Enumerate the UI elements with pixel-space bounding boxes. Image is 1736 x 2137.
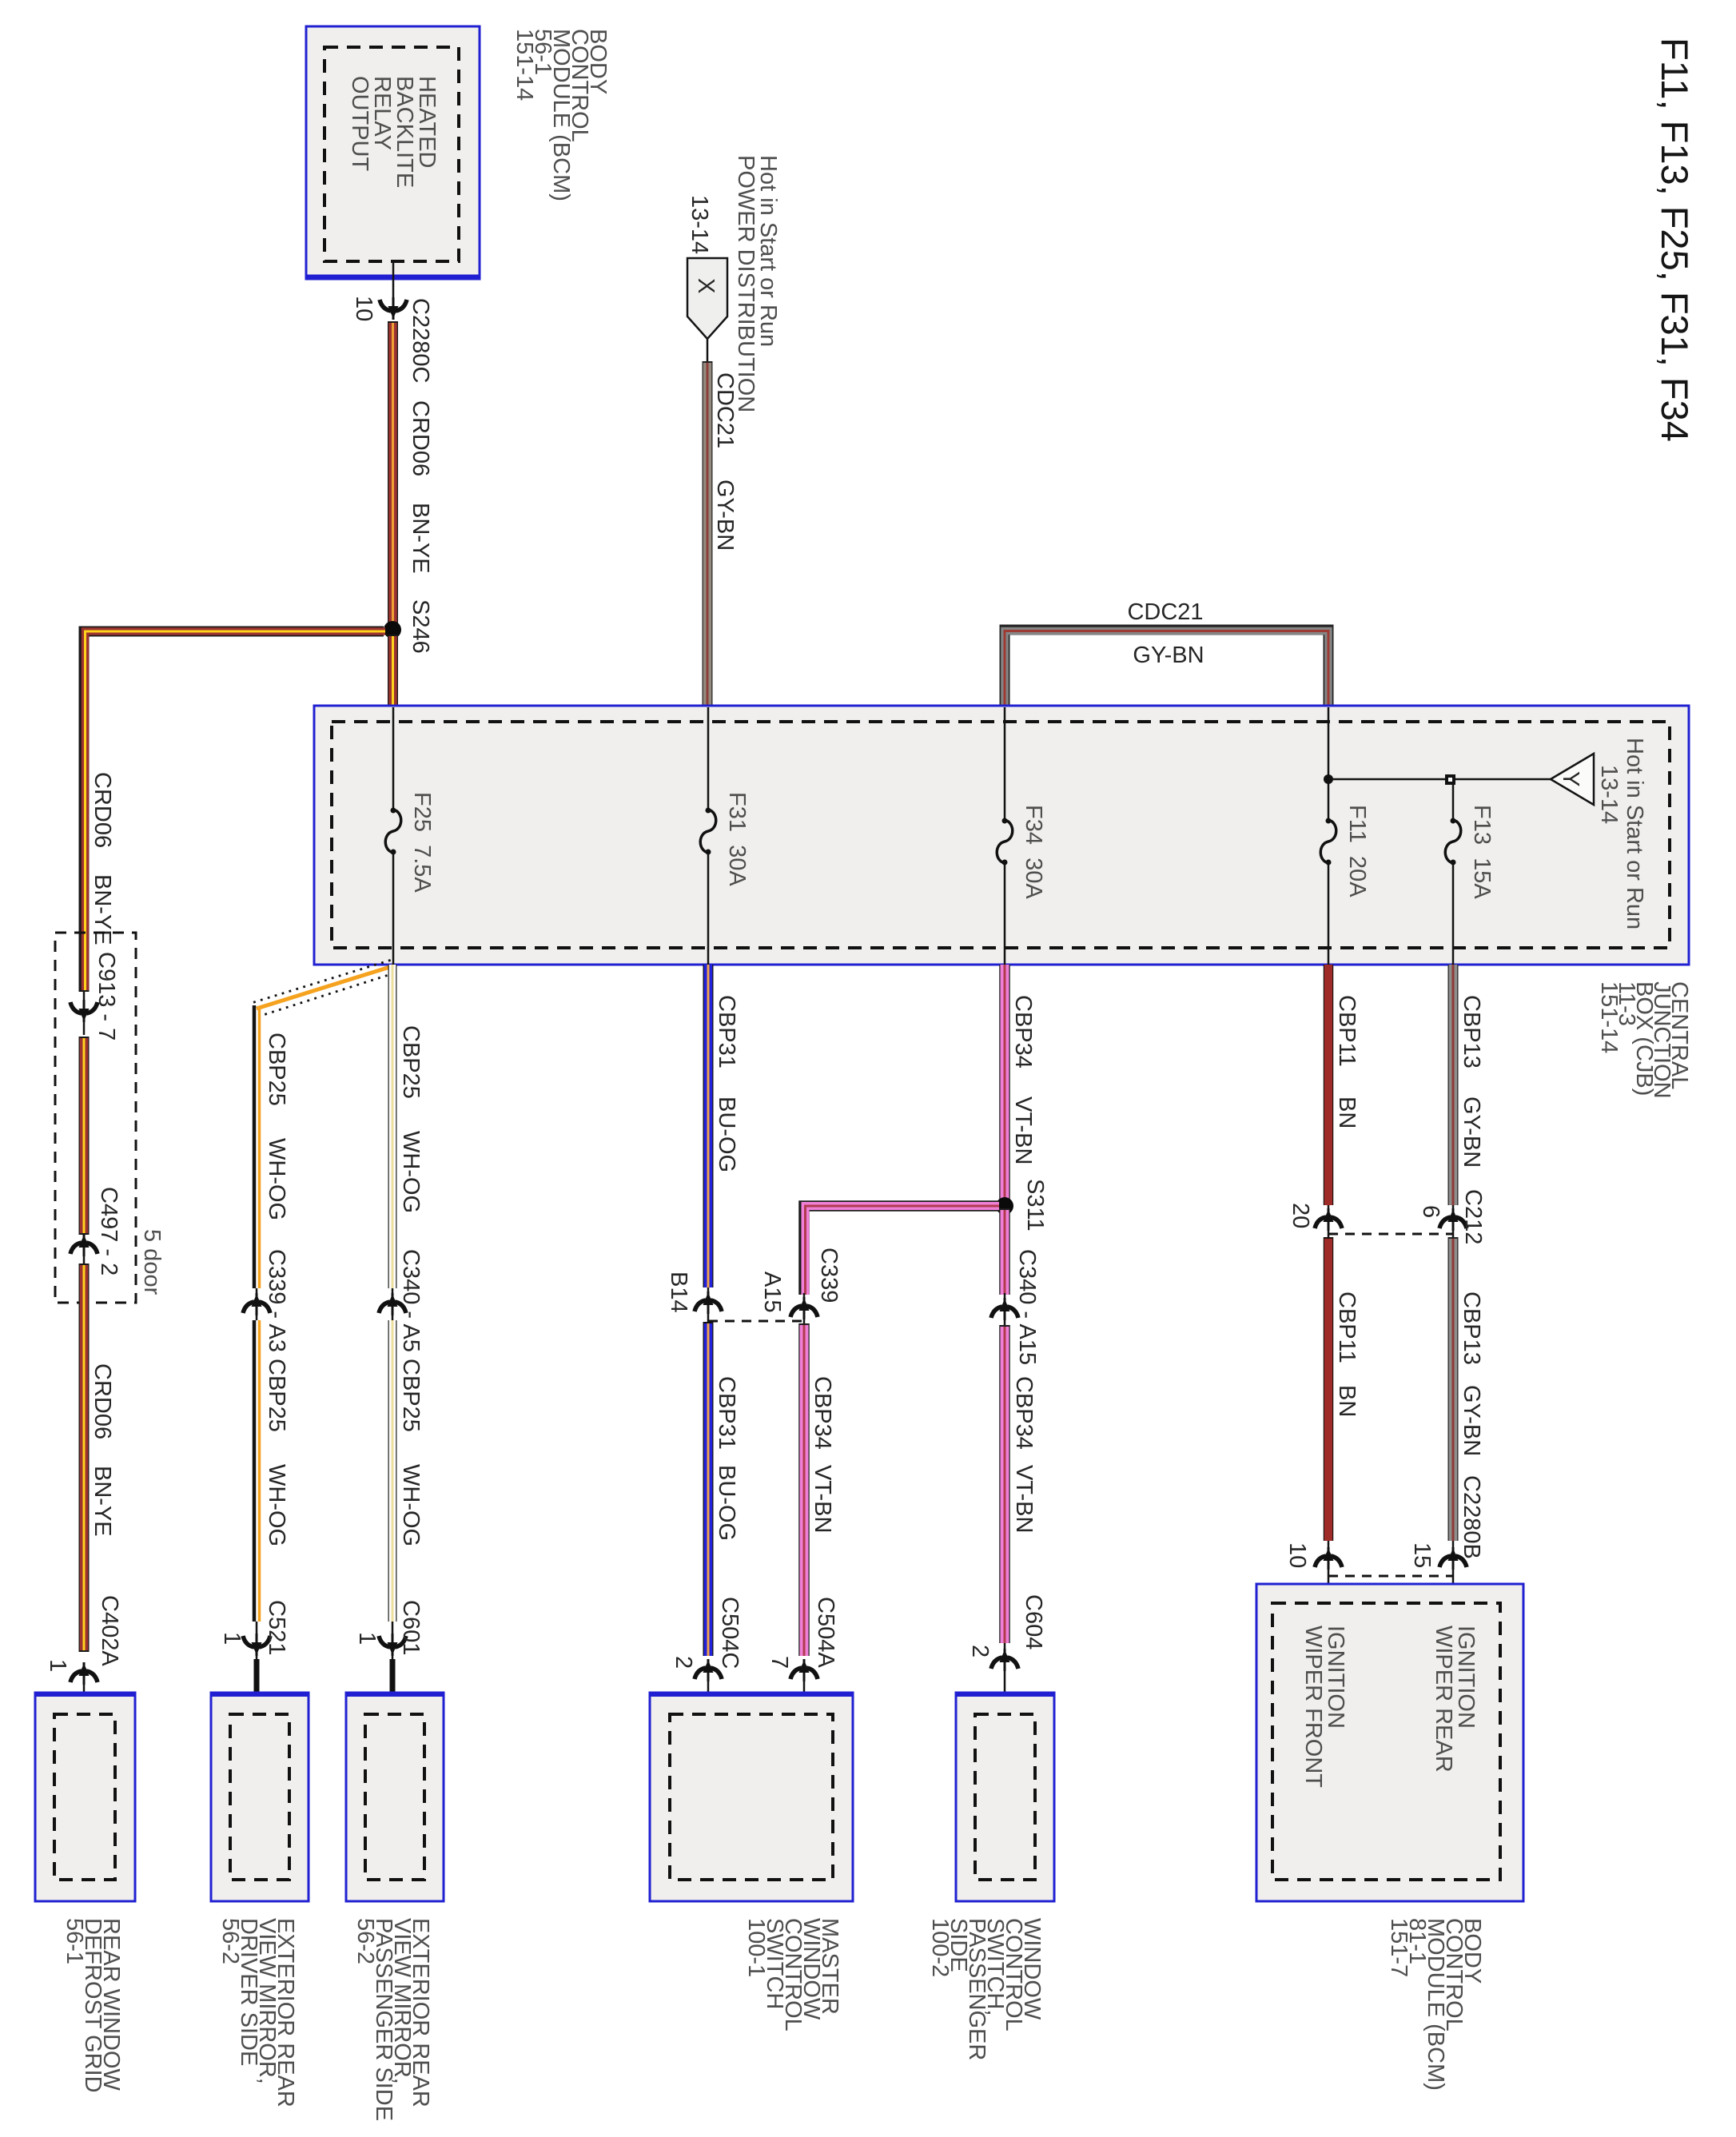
svg-text:BU-OG: BU-OG (714, 1465, 739, 1541)
wire CRD06 BN-YE inside 5 door loop (79, 1037, 90, 1235)
wire CBP11 BN (F11 to pin 20) (1324, 965, 1334, 1205)
title F11, F13, F25, F31, F34 (1654, 38, 1696, 442)
label REAR WINDOW DEFROST GRID 56-1 (62, 1918, 124, 2093)
fuse F31 (700, 808, 716, 855)
svg-text:GY-BN: GY-BN (1459, 1096, 1484, 1168)
wire label CRD06 (408, 400, 433, 476)
svg-text:GY-BN: GY-BN (1133, 643, 1204, 668)
fuse label F31 30A (724, 792, 750, 886)
module box WINDOW CONTROL SWITCH PASSENGER SIDE (956, 1693, 1054, 1901)
wire S246 to CJB F25 (388, 635, 398, 706)
connector label C340 - A5 (398, 1249, 424, 1352)
wire label WH-OG (398, 1464, 424, 1546)
wire CBP31 BU-OG (F31 to B14) (703, 965, 714, 1287)
fuse label F34 30A (1021, 805, 1046, 899)
svg-text:B14: B14 (666, 1271, 691, 1313)
dashed link pin20 to pin6 (1328, 1233, 1453, 1236)
pin label 1 (219, 1632, 245, 1645)
connector label C402A (97, 1595, 122, 1666)
svg-text:C497 - 2: C497 - 2 (96, 1187, 121, 1275)
label S246 (408, 599, 433, 654)
connector C212 pin 6 arrow (1439, 1205, 1467, 1237)
svg-text:BN-YE: BN-YE (90, 1466, 115, 1537)
module box: BODY CONTROL MODULE (BCM) heated backlite relay output (306, 26, 480, 279)
svg-text:GY-BN: GY-BN (1459, 1385, 1484, 1456)
pin label 1 (354, 1632, 380, 1645)
svg-text:BN-YE: BN-YE (90, 874, 115, 945)
internal feed line F34 (1004, 707, 1006, 965)
wire label CBP25 (264, 1033, 289, 1106)
connector label C339 - A3 (264, 1249, 289, 1352)
module box REAR WINDOW DEFROST GRID (35, 1693, 135, 1901)
wire label VT-BN (810, 1465, 835, 1533)
wire label CBP25 (398, 1025, 424, 1099)
dashed link B14 to A15 (708, 1320, 804, 1323)
label C913 - 7 (94, 952, 119, 1041)
svg-text:C2280B: C2280B (1459, 1475, 1484, 1559)
svg-text:CDC21: CDC21 (712, 372, 738, 448)
wire CBP13 GY-BN (C212 to BCM pin 15) (1448, 1237, 1459, 1541)
svg-text:WH-OG: WH-OG (264, 1138, 289, 1220)
label CENTRAL JUNCTION BOX (CJB) 11-3 151-14 (1596, 981, 1692, 1099)
svg-text:S311: S311 (1022, 1179, 1048, 1232)
svg-text:CBP11: CBP11 (1334, 1291, 1360, 1363)
svg-text:15: 15 (1409, 1542, 1435, 1568)
svg-text:C212: C212 (1460, 1189, 1486, 1244)
wire CBP34 VT-BN (S311 to C340-A15) (999, 1208, 1010, 1295)
label 13-14 (687, 195, 712, 254)
wire from BCM pin 10 (thin lead) (392, 261, 395, 299)
svg-text:CBP13: CBP13 (1459, 1291, 1484, 1365)
wire CBP11 BN (pin 20 to BCM pin 10) (1324, 1237, 1334, 1541)
internal bus wire from Y feed (1328, 778, 1551, 781)
internal label IGNITION WIPER FRONT (1300, 1626, 1348, 1788)
connector C339-A3 arrow (243, 1288, 270, 1320)
wire label CBP34 (810, 1376, 835, 1450)
svg-text:CBP34: CBP34 (810, 1376, 835, 1450)
connector C340-A5 arrow (379, 1288, 406, 1320)
connector label C212 (1460, 1189, 1486, 1244)
wire label CBP25 (264, 1359, 289, 1432)
svg-text:151-7: 151-7 (1386, 1918, 1411, 1977)
wire CBP25 WH-OG right lower (to C601) (388, 1320, 397, 1622)
svg-text:WIPER REAR: WIPER REAR (1431, 1626, 1456, 1773)
svg-text:F11 20A: F11 20A (1344, 805, 1370, 897)
svg-text:A15: A15 (759, 1271, 785, 1313)
svg-text:CRD06: CRD06 (90, 772, 115, 848)
wire CBP13 GY-BN (F13 to C212 pin 6) (1448, 965, 1459, 1205)
power feed symbol Y triangle (1551, 754, 1594, 805)
label BODY CONTROL MODULE (BCM) 81-1 151-7 (1386, 1918, 1485, 2091)
wire label CBP11 (1334, 995, 1360, 1067)
wire label CRD06 (90, 1363, 115, 1439)
svg-text:CBP34: CBP34 (1011, 1376, 1037, 1450)
svg-text:WH-OG: WH-OG (264, 1464, 289, 1546)
svg-text:6: 6 (1418, 1205, 1443, 1218)
wire label CBP13 (1459, 1291, 1484, 1365)
pin label 10 (1284, 1542, 1310, 1568)
label MASTER WINDOW CONTROL SWITCH 100-1 (743, 1918, 842, 2032)
label Hot in Start or Run 13-14 (inside CJB) (1596, 738, 1647, 929)
internal label IGNITION WIPER REAR (1431, 1626, 1479, 1773)
svg-text:GY-BN: GY-BN (712, 480, 738, 551)
connector A15 arrow (790, 1293, 818, 1323)
svg-text:C521: C521 (264, 1600, 289, 1655)
fuse label F13 15A (1469, 805, 1495, 899)
module box EXTERIOR REAR VIEW MIRROR PASSENGER SIDE (346, 1693, 444, 1901)
connector C340-A15 arrow (991, 1293, 1018, 1325)
svg-text:S246: S246 (408, 599, 433, 654)
svg-text:C339 - A3: C339 - A3 (264, 1249, 289, 1352)
label 5 door (139, 1229, 165, 1295)
svg-text:C504C: C504C (717, 1597, 743, 1669)
connector label C340 - A15 (1014, 1249, 1040, 1365)
connector C521 arrow (243, 1622, 270, 1659)
wire label BU-OG (714, 1096, 739, 1172)
wire CRD06 BN-YE branch from S246 to left and down (84, 631, 385, 992)
connector C913-7 arrow (70, 992, 98, 1035)
splice S311 (996, 1197, 1013, 1215)
svg-text:F13 15A: F13 15A (1469, 805, 1495, 899)
svg-text:WH-OG: WH-OG (398, 1131, 424, 1213)
fuse F25 (385, 808, 401, 855)
wire label CRD06 (90, 772, 115, 848)
svg-text:CBP34: CBP34 (1010, 995, 1036, 1068)
svg-text:2: 2 (671, 1656, 696, 1669)
module box MASTER WINDOW CONTROL SWITCH (650, 1693, 853, 1901)
pin label 6 (1418, 1205, 1443, 1218)
wire CBP25 WH-OG right (to C340-A5) (388, 965, 397, 1288)
svg-text:1: 1 (354, 1632, 380, 1645)
connector label C504A (813, 1597, 838, 1668)
central junction box CJB (314, 706, 1689, 965)
fuse F11 (1320, 818, 1336, 866)
svg-text:CDC21: CDC21 (1127, 599, 1203, 625)
wire label VT-BN (1010, 1096, 1036, 1164)
svg-text:VT-BN: VT-BN (810, 1465, 835, 1533)
svg-text:CRD06: CRD06 (408, 400, 433, 476)
wire label BN-YE (90, 874, 115, 945)
svg-text:Hot in Start or Run: Hot in Start or Run (1622, 738, 1647, 929)
wire CBP31 BU-OG (B14 to C504C) (703, 1322, 714, 1656)
fuse label F25 7.5A (409, 792, 435, 893)
wire label CDC21 (712, 372, 738, 448)
wire label GY-BN (712, 480, 738, 551)
wire label BN-YE (90, 1466, 115, 1537)
label EXTERIOR REAR VIEW MIRROR DRIVER SIDE 56-2 (217, 1918, 298, 2107)
connector C497-2 arrow (70, 1234, 98, 1267)
connector BCM pin 15 arrow (1439, 1541, 1467, 1603)
connector C2280C pin arrow (380, 297, 407, 320)
wire CDC21 GY-BN loop (F34 to F11 feed) (1005, 630, 1328, 706)
wire label VT-BN (1011, 1465, 1037, 1533)
svg-text:7: 7 (766, 1656, 792, 1669)
wire label GY-BN (horizontal) (1133, 643, 1204, 668)
wire label CBP11 (1334, 1291, 1360, 1363)
internal feed line F25 (392, 707, 395, 965)
wire label CBP31 (714, 1376, 739, 1450)
connector C504C arrow (695, 1659, 722, 1716)
connector C402A arrow (70, 1662, 98, 1716)
connector label C2280C (408, 298, 433, 383)
svg-text:13-14: 13-14 (1596, 765, 1622, 824)
svg-text:CBP31: CBP31 (714, 995, 739, 1068)
pin label 7 (766, 1656, 792, 1669)
wire label CBP31 (714, 995, 739, 1068)
connector C601 arrow (379, 1622, 406, 1659)
svg-text:C402A: C402A (97, 1595, 122, 1666)
svg-text:X: X (693, 278, 719, 293)
svg-text:CBP25: CBP25 (264, 1359, 289, 1432)
connector pin 20 arrow (1315, 1205, 1342, 1237)
svg-text:20: 20 (1288, 1203, 1313, 1228)
svg-text:151-14: 151-14 (512, 29, 537, 101)
svg-text:VT-BN: VT-BN (1010, 1096, 1036, 1164)
wire CRD06 BN-YE to C402A (79, 1263, 90, 1652)
svg-text:BN-YE: BN-YE (408, 503, 433, 574)
wire CBP25 WH-OG diagonal branch from F25 (253, 960, 395, 1015)
module box EXTERIOR REAR VIEW MIRROR DRIVER SIDE (211, 1693, 309, 1901)
svg-text:OUTPUT: OUTPUT (347, 76, 372, 172)
wire label GY-BN (1459, 1385, 1484, 1456)
wire CBP34 VT-BN (C340-A15 to C604) (999, 1325, 1010, 1643)
svg-text:CBP13: CBP13 (1459, 995, 1484, 1068)
wire label WH-OG (398, 1131, 424, 1213)
wire label CBP34 (1010, 995, 1036, 1068)
svg-text:C604: C604 (1021, 1594, 1046, 1650)
internal feed line F11 (1328, 707, 1330, 965)
wire label CDC21 (horizontal) (1127, 599, 1203, 625)
svg-text:56-2: 56-2 (217, 1918, 243, 1964)
dashed connector pass-through box C913/C497 (55, 933, 136, 1303)
svg-text:BU-OG: BU-OG (714, 1096, 739, 1172)
svg-text:CBP11: CBP11 (1334, 995, 1360, 1067)
connector C604 arrow (991, 1643, 1018, 1716)
svg-text:56-2: 56-2 (352, 1918, 378, 1964)
connector label C339 (816, 1248, 842, 1303)
svg-text:CBP31: CBP31 (714, 1376, 739, 1450)
connector C504A arrow (790, 1659, 818, 1716)
pin label 1 (45, 1659, 70, 1672)
svg-text:C2280C: C2280C (408, 298, 433, 383)
label S311 (1022, 1179, 1048, 1232)
wire label BU-OG (714, 1465, 739, 1541)
pin label 15 (1409, 1542, 1435, 1568)
svg-text:100-1: 100-1 (743, 1918, 769, 1977)
svg-text:C913 - 7: C913 - 7 (94, 952, 119, 1041)
internal feed line F31 (707, 707, 710, 965)
wire label CBP34 (1011, 1376, 1037, 1450)
svg-text:151-14: 151-14 (1596, 981, 1622, 1053)
pin label 20 (1288, 1203, 1313, 1228)
connector BCM pin 10 arrow (1315, 1541, 1342, 1603)
svg-text:VT-BN: VT-BN (1011, 1465, 1037, 1533)
wire CBP25 WH-OG left (to C339-A3) (254, 1005, 260, 1288)
wire label GY-BN (1459, 1096, 1484, 1168)
junction square at F13 (1445, 774, 1455, 785)
svg-text:BN: BN (1334, 1385, 1360, 1417)
pin label B14 (666, 1271, 691, 1313)
wire CBP25 WH-OG left lower (to C521) (254, 1320, 260, 1622)
splice S246 (384, 621, 401, 639)
svg-text:BN: BN (1334, 1096, 1360, 1128)
svg-text:CRD06: CRD06 (90, 1363, 115, 1439)
label BODY CONTROL MODULE (BCM) 56-1 151-14 (512, 29, 611, 201)
wire CBP34 VT-BN branch (S311 left and down to A15) (804, 1206, 999, 1295)
wire label WH-OG (264, 1464, 289, 1546)
svg-text:1: 1 (45, 1659, 70, 1672)
wire label BN (1334, 1096, 1360, 1128)
svg-text:F31 30A: F31 30A (724, 792, 750, 886)
svg-text:F25 7.5A: F25 7.5A (409, 792, 435, 893)
power feed symbol X (Hot in Start or Run) (687, 258, 727, 339)
svg-text:WIPER FRONT: WIPER FRONT (1300, 1626, 1326, 1788)
lead into passenger mirror box (390, 1659, 396, 1716)
lead into driver mirror box (254, 1659, 260, 1716)
internal feed line F13 (1452, 779, 1455, 965)
wire label BN (1334, 1385, 1360, 1417)
label C497 - 2 (96, 1187, 121, 1275)
fuse label F11 20A (1344, 805, 1370, 897)
connector B14 arrow (695, 1287, 722, 1323)
pin label 2 (967, 1645, 993, 1657)
svg-text:10: 10 (351, 296, 376, 321)
svg-text:C340 - A5: C340 - A5 (398, 1249, 424, 1352)
svg-text:CBP25: CBP25 (264, 1033, 289, 1106)
fuse F34 (997, 818, 1013, 866)
wire lead from X (707, 339, 709, 363)
svg-text:1: 1 (219, 1632, 245, 1645)
wire CDC21 GY-BN (X to CJB F31) (703, 361, 713, 706)
svg-text:C601: C601 (398, 1600, 424, 1655)
svg-text:C340 - A15: C340 - A15 (1014, 1249, 1040, 1365)
connector label C504C (717, 1597, 743, 1669)
junction node at F11 (1324, 774, 1333, 784)
connector label C2280B (1459, 1475, 1484, 1559)
svg-text:100-2: 100-2 (927, 1918, 953, 1977)
connector label C601 (398, 1600, 424, 1655)
svg-text:5 door: 5 door (139, 1229, 165, 1295)
svg-text:C339: C339 (816, 1248, 842, 1303)
module box BODY CONTROL MODULE (BCM) (1256, 1584, 1523, 1901)
connector label C604 (1021, 1594, 1046, 1650)
svg-text:F34 30A: F34 30A (1021, 805, 1046, 899)
svg-text:CBP25: CBP25 (398, 1025, 424, 1099)
svg-text:2: 2 (967, 1645, 993, 1657)
svg-text:CBP25: CBP25 (398, 1359, 424, 1432)
pin label 2 (671, 1656, 696, 1669)
svg-text:Y: Y (1558, 771, 1583, 786)
pin label A15 (759, 1271, 785, 1313)
label Hot in Start or Run POWER DISTRIBUTION (733, 155, 781, 412)
wire CBP34 VT-BN (A15 to C504A) (798, 1323, 810, 1656)
svg-text:C504A: C504A (813, 1597, 838, 1668)
wire CRD06 BN-YE (C2280C to S246) (388, 321, 398, 628)
connector label C521 (264, 1600, 289, 1655)
svg-text:56-1: 56-1 (62, 1918, 87, 1964)
wire label BN-YE (408, 503, 433, 574)
pin label 10 (351, 296, 376, 321)
label WINDOW CONTROL SWITCH PASSENGER SIDE 100-2 (927, 1918, 1045, 2060)
wire label WH-OG (264, 1138, 289, 1220)
svg-text:WH-OG: WH-OG (398, 1464, 424, 1546)
wire label CBP13 (1459, 995, 1484, 1068)
svg-text:F11, F13, F25, F31, F34: F11, F13, F25, F31, F34 (1654, 38, 1696, 442)
fuse F13 (1445, 818, 1461, 866)
label EXTERIOR REAR VIEW MIRROR PASSENGER SIDE 56-2 (352, 1918, 433, 2121)
wire CBP34 VT-BN (F34 to S311) (999, 965, 1010, 1204)
dashed link BCM pin10 to pin15 (1328, 1575, 1453, 1578)
wire label CBP25 (398, 1359, 424, 1432)
svg-text:10: 10 (1284, 1542, 1310, 1568)
svg-text:13-14: 13-14 (687, 195, 712, 254)
